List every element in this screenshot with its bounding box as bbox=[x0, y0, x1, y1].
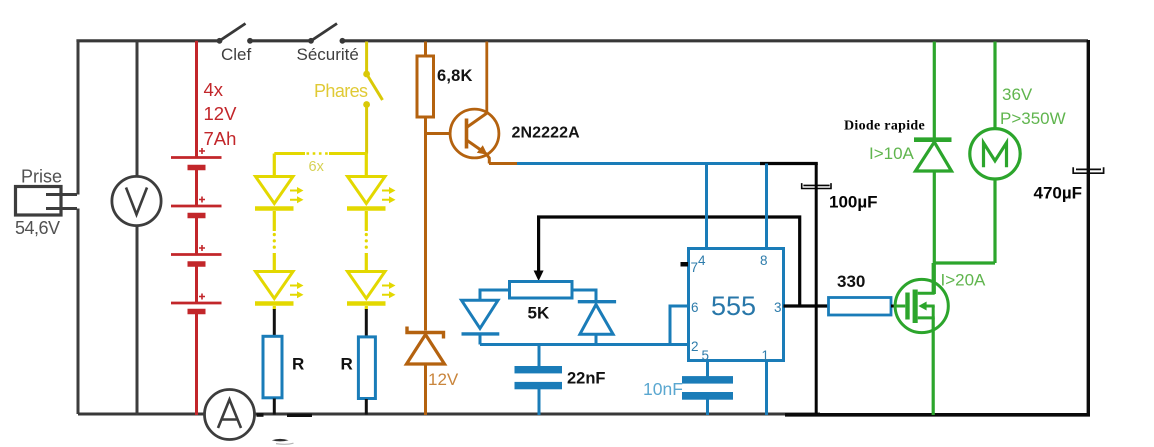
svg-text:5K: 5K bbox=[528, 304, 550, 323]
wire pot right to diode bbox=[572, 290, 596, 302]
capacitor C1 100uF bbox=[802, 183, 831, 188]
svg-text:P>350W: P>350W bbox=[1000, 109, 1066, 128]
wire pin1 bbox=[765, 361, 768, 416]
ammeter U-A bbox=[205, 390, 255, 440]
wire wiper black bbox=[539, 217, 800, 306]
svg-text:54,6V: 54,6V bbox=[15, 218, 60, 238]
svg-text:2: 2 bbox=[691, 339, 699, 354]
svg-text:8: 8 bbox=[760, 253, 768, 268]
potentiometer 5K bbox=[510, 282, 573, 299]
svg-text:4: 4 bbox=[698, 253, 706, 268]
svg-text:6: 6 bbox=[691, 300, 699, 315]
pin7 stub bbox=[681, 262, 689, 267]
LED chain right bbox=[347, 154, 386, 311]
svg-text:555: 555 bbox=[711, 291, 756, 321]
battery plus marks bbox=[199, 148, 205, 300]
wire motor top bbox=[993, 42, 996, 129]
LED left arrows bbox=[290, 187, 304, 298]
wire base branch bbox=[426, 117, 467, 134]
wire 10nF to rail bbox=[706, 398, 709, 415]
svg-text:7: 7 bbox=[691, 260, 699, 275]
wire mosfet source bbox=[932, 318, 935, 415]
svg-text:7Ah: 7Ah bbox=[204, 128, 237, 149]
svg-text:330: 330 bbox=[837, 272, 865, 291]
resistor R right bbox=[358, 337, 375, 399]
capacitor C4 470uF bbox=[1073, 167, 1103, 173]
wire R right to rail bbox=[365, 399, 368, 415]
svg-text:6,8K: 6,8K bbox=[437, 67, 473, 85]
svg-text:I>20A: I>20A bbox=[941, 271, 987, 290]
diode D1 left bbox=[462, 300, 500, 344]
wire bottom rail bbox=[78, 412, 820, 415]
svg-text:4x: 4x bbox=[204, 79, 224, 100]
switch Phares bbox=[363, 42, 382, 154]
resistor R left bbox=[263, 336, 282, 398]
LED right arrows bbox=[382, 187, 396, 298]
wire pin4 bbox=[705, 164, 708, 250]
thick rail segment bbox=[257, 413, 264, 417]
wire pin6 bracket bbox=[670, 306, 689, 345]
wire LED right to resistor bbox=[365, 309, 368, 337]
svg-text:12V: 12V bbox=[428, 370, 459, 389]
voltmeter U-V bbox=[112, 176, 161, 225]
wire right rail bbox=[1087, 40, 1090, 414]
wire 6.8K top bbox=[424, 42, 427, 57]
arrowhead wiper bbox=[534, 271, 544, 282]
pin labels bbox=[691, 253, 782, 363]
capacitor C3 10nF bbox=[682, 376, 733, 400]
wire diode rapide branch bbox=[933, 42, 936, 140]
wire emitter brown bbox=[489, 162, 518, 165]
wire 22nF to rail bbox=[538, 389, 541, 415]
wire pot left to diode bbox=[480, 290, 510, 301]
diode D2 right bbox=[578, 302, 616, 345]
battery B1 4x12V stack bbox=[171, 41, 222, 415]
wire LED bus bbox=[274, 152, 367, 155]
wire LED left to resistor bbox=[273, 309, 276, 336]
wire R left to rail bbox=[273, 399, 276, 415]
wire mosfet drain bbox=[932, 263, 935, 293]
svg-text:100µF: 100µF bbox=[829, 193, 878, 212]
svg-text:22nF: 22nF bbox=[567, 370, 606, 388]
resistor 330 bbox=[829, 298, 892, 316]
IC U1 555 bbox=[689, 249, 784, 361]
wire threshold line to pin2 bbox=[480, 343, 689, 346]
capacitor C2 22nF bbox=[515, 366, 563, 389]
transistor Q1 2N2222A bbox=[450, 109, 499, 163]
wire voltmeter branch bbox=[136, 41, 139, 415]
wire pin3 out bbox=[784, 304, 830, 307]
switch Clef bbox=[217, 24, 253, 44]
svg-text:Sécurité: Sécurité bbox=[297, 45, 359, 64]
stray arc below rail bbox=[272, 439, 289, 442]
wire top rail bbox=[78, 41, 1088, 42]
svg-text:Diode rapide: Diode rapide bbox=[844, 119, 925, 134]
wire 22nF tap bbox=[538, 345, 541, 367]
resistor 6.8K bbox=[417, 56, 434, 117]
svg-text:12V: 12V bbox=[204, 103, 238, 124]
svg-text:470µF: 470µF bbox=[1034, 184, 1083, 203]
switch Securite bbox=[308, 24, 345, 44]
svg-text:R: R bbox=[341, 355, 353, 374]
wire zener to rail bbox=[424, 364, 427, 415]
wire left rail bbox=[77, 40, 80, 414]
wire collector bbox=[485, 42, 488, 114]
wire 100uF to rail bbox=[815, 164, 818, 415]
MOSFET Q2 bbox=[895, 279, 948, 332]
wire pin5 bbox=[706, 361, 709, 378]
wire drain tee bbox=[934, 261, 995, 264]
zener diode D3 12V bbox=[407, 327, 445, 365]
LED chain left bbox=[255, 154, 294, 311]
svg-text:Prise: Prise bbox=[21, 167, 62, 187]
wire emitter blue line bbox=[517, 162, 767, 165]
svg-text:R: R bbox=[292, 355, 304, 374]
diode D4 rapide bbox=[914, 140, 952, 171]
motor M1 bbox=[970, 129, 1020, 179]
connector Prise bbox=[16, 187, 78, 216]
svg-text:2N2222A: 2N2222A bbox=[512, 125, 581, 142]
wire motor bottom bbox=[993, 179, 996, 263]
svg-text:36V: 36V bbox=[1002, 85, 1033, 104]
wire pin8 bbox=[765, 164, 768, 250]
svg-text:Clef: Clef bbox=[221, 45, 252, 64]
wire black to 100uF bbox=[760, 164, 816, 166]
svg-text:6x: 6x bbox=[309, 159, 325, 175]
wire diode to drain bbox=[933, 171, 936, 294]
svg-text:3: 3 bbox=[774, 300, 782, 315]
wire zener branch bbox=[424, 134, 427, 331]
svg-text:I>10A: I>10A bbox=[869, 144, 915, 163]
svg-text:10nF: 10nF bbox=[643, 379, 683, 399]
svg-text:Phares: Phares bbox=[314, 81, 368, 101]
wire gate bbox=[891, 305, 898, 308]
